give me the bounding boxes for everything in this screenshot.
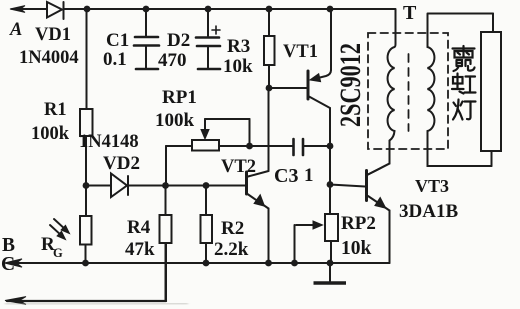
wire: mid rail node down to R2 (205, 186, 207, 216)
transformer T secondary winding (428, 14, 492, 167)
wire: RP1 right terminal to C3 left plate (219, 145, 293, 147)
junction: top rail / VT1 emitter (327, 6, 334, 13)
svg-text:VD1: VD1 (35, 25, 71, 45)
svg-text:R2: R2 (221, 218, 244, 239)
svg-text:RP2: RP2 (341, 213, 376, 234)
svg-text:R4: R4 (127, 217, 151, 238)
svg-text:470: 470 (158, 50, 187, 71)
wire: top rail down to R3 (268, 9, 270, 36)
wire: VT3 emitter down to B rail corner (389, 211, 391, 264)
wire: RG bottom to B rail (85, 245, 87, 264)
wire: RP2 wiper tail to B rail (294, 225, 296, 263)
potentiometer RP2 body (325, 214, 338, 241)
wire: terminal A lead with left arrow (10, 6, 47, 13)
wire: B rail with left arrow (terminal B) (5, 259, 390, 267)
potentiometer RP1 body (192, 140, 219, 151)
resistor R4 (160, 215, 172, 243)
photoresistor RG with light arrows (50, 216, 92, 245)
RP1 wiper arrow (201, 119, 209, 139)
svg-text:2SC9012: 2SC9012 (334, 43, 367, 127)
junction: VD2 cathode / RP1 left / R4 (162, 182, 169, 189)
wire: VT1 base node down to VT2 collector (248, 88, 269, 177)
svg-text:VT1: VT1 (283, 42, 318, 62)
svg-text:2.2k: 2.2k (214, 239, 249, 260)
transformer T core dashed center line (408, 54, 410, 131)
wire: mid rail from VD2 cathode to VT2 base (129, 185, 245, 187)
svg-text:R3: R3 (227, 36, 250, 57)
svg-text:VT3: VT3 (415, 176, 449, 196)
junction: B rail / R2 bottom (203, 260, 210, 267)
svg-text:1N4004: 1N4004 (19, 48, 79, 68)
junction: B rail / RP2 wiper tail (291, 260, 298, 267)
wire: mid rail node down to R4 (165, 186, 167, 216)
svg-text:VD2: VD2 (103, 153, 140, 174)
wire: top supply rail from VD1 cathode to transformer primary (64, 8, 395, 10)
capacitor C1 (134, 9, 159, 69)
svg-text:100k: 100k (155, 110, 195, 131)
wire: VT3 base lead (330, 185, 365, 187)
transformer T primary winding (to VT3 collector) (368, 9, 396, 175)
capacitor D2 electrolytic with plus sign (196, 9, 220, 69)
junction: B rail / RG bottom (82, 260, 89, 267)
svg-text:RP1: RP1 (162, 87, 197, 108)
transistor VT3 (NPN) (367, 164, 390, 211)
transformer T dashed core box (368, 33, 448, 149)
svg-text:D2: D2 (167, 30, 190, 51)
junction: VT3 base branch (327, 181, 334, 188)
diode VD1 (47, 2, 64, 19)
wire: VT1 collector down to C3 node (329, 108, 331, 146)
svg-text:VT2: VT2 (221, 157, 256, 177)
RP2 wiper arrow (296, 221, 323, 229)
svg-text:A: A (9, 20, 22, 40)
wire: VT2 emitter down to B rail (268, 209, 270, 264)
svg-text:1N4148: 1N4148 (79, 132, 139, 152)
label neon lamp: hanzi ni (drawn) (453, 46, 475, 71)
svg-text:3DA1B: 3DA1B (399, 201, 458, 222)
wire: VT1 base lead (269, 87, 307, 89)
svg-text:47k: 47k (125, 239, 155, 260)
wire: RP1 wiper loop to right terminal junction (205, 119, 250, 146)
ground (314, 263, 347, 283)
svg-text:B: B (2, 235, 15, 256)
wire: R1 bottom to VD2 anode node (85, 136, 87, 186)
wire: R3 bottom to VT1 base node (268, 65, 270, 88)
svg-text:C1: C1 (106, 30, 129, 51)
diode VD2 (111, 174, 128, 198)
junction: R3 bottom / VT1 base (266, 85, 273, 92)
svg-text:C: C (1, 254, 15, 275)
svg-text:C3: C3 (274, 165, 298, 187)
capacitor C3 (269, 139, 331, 155)
svg-text:1: 1 (304, 165, 314, 186)
wire: top rail down to R1 (86, 9, 88, 109)
neon lamp tube (481, 32, 501, 166)
svg-text:10k: 10k (223, 56, 253, 77)
wire: RP1 left terminal down to mid rail (166, 146, 192, 186)
wire: R2 bottom to B rail (205, 243, 207, 263)
wire: C rail with left arrow (terminal C) up to R4 (5, 243, 166, 304)
scan smudge under C wire (5, 303, 188, 306)
junction: top rail / D2 (205, 6, 212, 13)
svg-text:R1: R1 (44, 100, 67, 120)
junction: VT1 collector / C3 right plate (327, 143, 334, 150)
svg-text:G: G (53, 246, 63, 260)
wire: C3 node down through VT3 base node to RP2 (329, 146, 331, 214)
label neon lamp: hanzi hong (drawn) (452, 74, 476, 94)
junction: R1 / VD2 anode / RG (83, 182, 90, 189)
svg-text:T: T (403, 2, 417, 24)
junction: B rail / RP2 bottom / ground (327, 260, 334, 267)
wire: R4 bottom crossing B rail down to C rail (165, 243, 167, 300)
svg-text:10k: 10k (341, 238, 372, 259)
junction: top rail / R1 branch (84, 6, 91, 13)
transistor VT2 (NPN) (247, 172, 269, 209)
junction: B rail / VT2 emitter (265, 260, 272, 267)
junction: RP1 right terminal / wiper (246, 143, 253, 150)
wire: mid rail from R1 node to VD2 anode (86, 185, 112, 187)
svg-text:100k: 100k (31, 124, 70, 144)
resistor R1 (80, 109, 93, 136)
wire: VD2 node down to photoresistor RG (85, 186, 87, 217)
resistor R2 (201, 215, 213, 243)
resistor R3 (264, 36, 275, 65)
junction: mid rail / R2 (203, 182, 210, 189)
wire: secondary top to neon lamp (428, 14, 493, 33)
wire: RP2 bottom to ground node (330, 241, 332, 263)
junction: top rail / C1 (143, 6, 150, 13)
label neon lamp: hanzi deng (drawn) (453, 100, 476, 120)
transistor VT1 (PNP) (308, 9, 331, 108)
junction: top rail / R3 (266, 6, 273, 13)
svg-text:0.1: 0.1 (103, 49, 127, 70)
